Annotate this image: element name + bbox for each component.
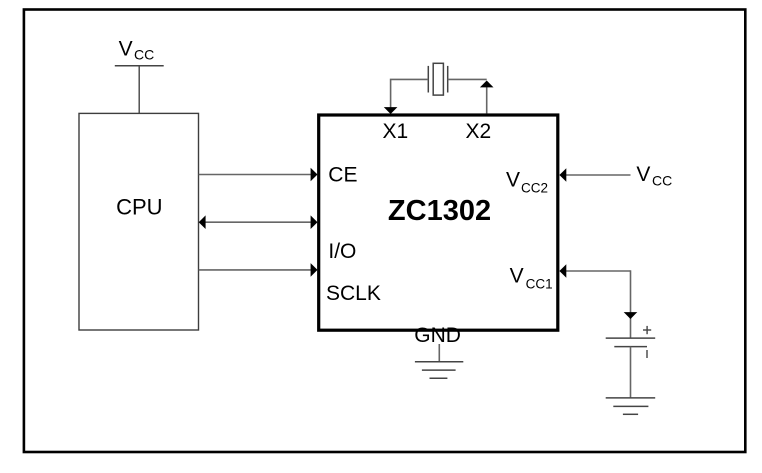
svg-text:V: V bbox=[510, 264, 524, 287]
pin label VCC1 bbox=[510, 264, 553, 291]
svg-text:GND: GND bbox=[414, 324, 461, 347]
wire SCLK (CPU to IC) bbox=[199, 263, 318, 277]
crystal Y1 bbox=[428, 63, 447, 95]
wire GND pin to ground bbox=[438, 344, 440, 362]
power VCC (right, into VCC2) bbox=[559, 163, 672, 189]
svg-text:CC1: CC1 bbox=[526, 277, 553, 292]
svg-text:X2: X2 bbox=[465, 120, 491, 143]
svg-text:V: V bbox=[119, 37, 133, 60]
pin label VCC2 bbox=[506, 168, 548, 195]
svg-text:X1: X1 bbox=[382, 120, 408, 143]
IC U1 ZC1302 bbox=[319, 115, 558, 330]
svg-text:V: V bbox=[636, 163, 650, 186]
power VCC (CPU supply) bbox=[115, 37, 164, 113]
svg-text:CPU: CPU bbox=[116, 195, 162, 220]
ground (battery) bbox=[606, 398, 656, 414]
wire I/O bidirectional (CPU to IC) bbox=[199, 215, 318, 229]
svg-text:V: V bbox=[506, 168, 520, 191]
battery BT1 bbox=[606, 326, 656, 398]
svg-text:I/O: I/O bbox=[328, 240, 356, 263]
wire crystal to X1 bbox=[384, 79, 429, 114]
wire CE (CPU to IC) bbox=[199, 168, 318, 182]
svg-text:CC: CC bbox=[652, 173, 672, 189]
svg-text:CC: CC bbox=[134, 47, 154, 63]
ground (GND pin) bbox=[415, 362, 463, 378]
svg-text:ZC1302: ZC1302 bbox=[388, 195, 491, 227]
svg-text:SCLK: SCLK bbox=[326, 282, 381, 305]
CPU block bbox=[79, 113, 199, 330]
svg-text:CC2: CC2 bbox=[521, 181, 548, 196]
wire crystal to X2 bbox=[448, 79, 494, 113]
svg-text:CE: CE bbox=[328, 164, 357, 187]
wire VCC1 to battery bbox=[559, 264, 637, 338]
